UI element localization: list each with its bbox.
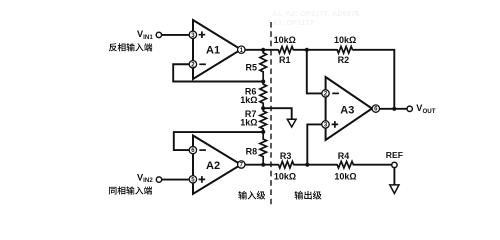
label R2 value 10kΩ (334, 35, 356, 45)
pin 3 of A3 (322, 121, 329, 129)
ground arrow at mid node (287, 119, 296, 127)
svg-text:1kΩ: 1kΩ (240, 95, 257, 105)
junction A1 output node (261, 48, 265, 52)
resistor R8 (260, 132, 267, 165)
pin 2 of A3 (322, 90, 329, 98)
svg-text:REF: REF (386, 150, 403, 160)
label VIN1 (137, 29, 153, 41)
svg-text:10kΩ: 10kΩ (334, 35, 356, 45)
resistor R6 (260, 82, 267, 109)
wire A1 output to R1 (245, 49, 278, 51)
wire REF to ground (393, 168, 395, 185)
svg-text:R4: R4 (338, 151, 350, 161)
label R6 (245, 86, 257, 96)
pin 3 of A1 (189, 31, 196, 39)
resistor R7 (260, 108, 267, 132)
op-amp A1 body (193, 20, 241, 79)
pin 6 of A3 (372, 105, 379, 113)
svg-text:R3: R3 (280, 151, 292, 161)
terminal REF (392, 162, 397, 167)
label VIN2 (137, 172, 153, 184)
faint caption text (272, 9, 360, 27)
svg-text:R8: R8 (246, 147, 258, 157)
label R3 value 10kΩ (274, 171, 296, 181)
svg-text:R2: R2 (338, 55, 350, 65)
label 输出级(output stage) (295, 191, 322, 200)
pin 7 of A2 (238, 161, 245, 169)
wire R3-R4 node to A3 pin3 (307, 124, 322, 164)
svg-text:R1: R1 (279, 55, 291, 65)
label REF (386, 150, 403, 160)
wire R3 to R4 (294, 164, 337, 166)
svg-text:R5: R5 (245, 63, 257, 73)
svg-text:A3: A3 (340, 104, 354, 116)
terminal VIN1 (156, 32, 161, 37)
svg-text:10kΩ: 10kΩ (274, 35, 296, 45)
svg-text:A3: OP1177: A3: OP1177 (272, 18, 314, 27)
label R6 value 1kΩ (240, 95, 257, 105)
label R5 (245, 63, 257, 73)
junction R6-R7 mid node (261, 106, 265, 110)
svg-text:A2: A2 (206, 160, 220, 172)
junction R5-R6 node (261, 79, 265, 83)
wire A3 output to VOUT (380, 108, 408, 110)
wire R4 to REF (354, 164, 392, 166)
resistor R4 (337, 161, 354, 168)
label 同相输入端(non-inverting input) (109, 186, 152, 194)
wire VIN1 to A1 pin3 (162, 34, 190, 36)
label R2 (338, 55, 350, 65)
pin 5 of A2 (189, 176, 196, 184)
svg-text:10kΩ: 10kΩ (334, 171, 356, 181)
junction R1-R2 node (305, 48, 309, 52)
junction R7-R8 node (261, 130, 265, 134)
wire R1 to R2 (294, 49, 338, 51)
resistor R1 (278, 47, 294, 54)
ground arrow at REF (390, 185, 399, 194)
wire A2 feedback (pin6 to R7-R8 node) (174, 132, 263, 150)
resistor R3 (278, 161, 294, 168)
terminal VIN2 (156, 177, 161, 182)
junction R3-R4 node (305, 163, 309, 167)
wire VIN2 to A2 pin5 (162, 179, 190, 181)
wire R1-R2 node to A3 pin2 (307, 50, 322, 94)
label R1 (279, 55, 291, 65)
svg-text:1kΩ: 1kΩ (240, 118, 257, 128)
stage divider dashed line (270, 22, 272, 207)
svg-text:A1: A1 (206, 45, 220, 57)
junction A2 output node (261, 163, 265, 167)
op-amp A2 body (193, 136, 241, 194)
resistor R2 (337, 47, 353, 54)
label R4 (338, 151, 350, 161)
label R3 (280, 151, 292, 161)
wire A2 output to R3 (245, 164, 278, 166)
svg-text:10kΩ: 10kΩ (274, 171, 296, 181)
op-amp A3 body (326, 77, 372, 140)
pin 1 of A1 (238, 46, 245, 54)
wire A1 feedback (pin2 to R5-R6 node) (173, 64, 263, 81)
label R7 (245, 109, 257, 119)
resistor R5 (260, 50, 267, 82)
pin 6 of A2 (189, 146, 196, 154)
label R4 value 10kΩ (334, 171, 356, 181)
label 输入级(input stage) (238, 191, 265, 200)
junction output node (392, 107, 396, 111)
terminal VOUT (407, 106, 412, 111)
label R7 value 1kΩ (240, 118, 257, 128)
label R1 value 10kΩ (274, 35, 296, 45)
label R8 (246, 147, 258, 157)
label 反相输入端(inverting input) (109, 43, 152, 51)
pin 2 of A1 (189, 61, 196, 69)
wire R2 to output node (353, 50, 395, 109)
svg-text:A1, A2: OP2177, AD8676: A1, A2: OP2177, AD8676 (272, 9, 360, 18)
label VOUT (416, 103, 435, 115)
wire mid node to ground (263, 108, 292, 119)
